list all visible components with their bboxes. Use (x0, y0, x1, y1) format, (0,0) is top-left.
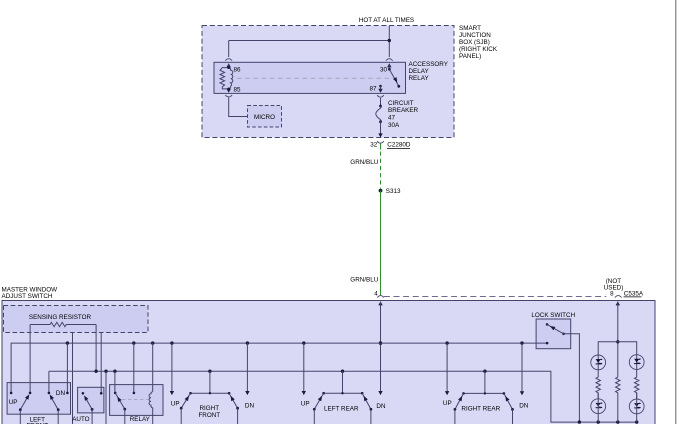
wire bus1 drop relay coil (152, 343, 154, 392)
svg-text:DN: DN (56, 390, 66, 397)
adjacent page/box edge (right, full height) (675, 0, 677, 424)
node 86 (227, 66, 230, 69)
relay blade (115, 393, 125, 409)
contact left front dn (66, 392, 69, 395)
svg-text:DN: DN (519, 402, 529, 409)
wire led bottoms (598, 393, 637, 422)
splice S313 (379, 189, 383, 193)
svg-text:ADJUST SWITCH: ADJUST SWITCH (2, 293, 53, 300)
svg-text:86: 86 (234, 67, 242, 74)
wire bus1 drop RR up (446, 343, 448, 392)
bus1 supply (11, 343, 547, 393)
connector C2280D symbol (green) (377, 141, 384, 149)
svg-text:30: 30 (380, 67, 388, 74)
svg-text:RIGHT: RIGHT (200, 405, 220, 412)
label (NOT USED) (604, 278, 624, 292)
resistor R1 (596, 377, 600, 399)
relay coil L1 (149, 392, 153, 424)
relay center contact (133, 392, 136, 395)
contact auto right (100, 392, 103, 395)
left rear switch (313, 392, 372, 424)
svg-text:ACCESSORY: ACCESSORY (409, 61, 449, 68)
node bus2 junction b (113, 370, 116, 373)
label SMART JUNCTION BOX (459, 25, 498, 60)
label CIRCUIT BREAKER 47 30A (388, 100, 419, 129)
blade auto (85, 397, 92, 409)
node bus2 junction e (483, 370, 486, 373)
node return bus junction d (635, 420, 638, 423)
contact left front mid1 (29, 392, 32, 395)
relay switch box (110, 385, 163, 416)
lock switch box (536, 319, 571, 349)
wire branch horizontal (229, 40, 390, 42)
node resistor-bus2 (94, 370, 97, 373)
wire bus1 drop RF up (171, 343, 173, 392)
relay blade pivot (397, 85, 400, 88)
svg-text:UP: UP (443, 400, 452, 407)
relay linkage (grey dashed) (122, 399, 149, 401)
wire 85 to micro (229, 98, 248, 117)
wire bus1 drop relay contact (133, 343, 135, 393)
led D4 (629, 399, 644, 414)
blade left front dn (51, 396, 59, 410)
resistor R2 (middle) (616, 377, 620, 422)
node bus1 junction b (132, 341, 135, 344)
led D3 (591, 399, 606, 414)
sensing resistor box (dashed) (4, 306, 149, 333)
wire bus2 drop LR center (342, 371, 344, 393)
svg-text:JUNCTION: JUNCTION (459, 32, 491, 39)
svg-text:AUTO: AUTO (72, 416, 89, 423)
node bus2 junction d (341, 370, 344, 373)
svg-text:GRN/BLU: GRN/BLU (350, 276, 378, 283)
node bus2 junction a (104, 370, 107, 373)
node bus1 junction e (246, 341, 249, 344)
svg-text:LOCK SWITCH: LOCK SWITCH (531, 312, 575, 319)
svg-text:GRN/BLU: GRN/BLU (350, 159, 378, 166)
master window adjust switch box (2, 301, 655, 424)
node bus2 junction c (208, 370, 211, 373)
resistor R3 (635, 377, 639, 399)
accessory delay relay box U1 (214, 62, 406, 93)
node bus1 junction f (302, 341, 305, 344)
led rail (598, 342, 637, 377)
pin 8 connector arc (615, 296, 622, 298)
node bus1 junction h (520, 341, 523, 344)
relay left contact (114, 392, 117, 395)
svg-text:FRONT: FRONT (198, 412, 220, 419)
right front switch (180, 392, 239, 424)
wire lock switch output (564, 334, 580, 422)
svg-text:30A: 30A (388, 122, 400, 129)
svg-text:C535A: C535A (624, 290, 644, 297)
pin 4 entry arrow (378, 301, 382, 305)
wire bus1 drop LR up (303, 343, 305, 392)
svg-text:RELAY: RELAY (409, 75, 430, 82)
svg-text:UP: UP (301, 401, 310, 408)
svg-text:8: 8 (610, 290, 614, 297)
svg-text:RELAY: RELAY (130, 416, 151, 423)
wire pin 4 drop (380, 302, 382, 392)
smart junction box SJB (dashed) (202, 26, 454, 138)
pin 4 connector arc (377, 296, 384, 298)
lock switch blade (547, 324, 564, 333)
mechanical linkage (grey dashed) (237, 77, 391, 79)
contact lock common (546, 323, 549, 326)
wire pin 8 drop (617, 302, 619, 378)
svg-text:UP: UP (171, 400, 180, 407)
svg-text:(RIGHT KICK: (RIGHT KICK (459, 46, 498, 53)
left front switch box (7, 383, 70, 415)
svg-text:SENSING RESISTOR: SENSING RESISTOR (29, 314, 92, 321)
wire coil feed vertical (228, 41, 230, 58)
dashed connector face line (384, 295, 606, 297)
svg-text:BREAKER: BREAKER (388, 107, 419, 114)
pin 87 wire and exit (377, 85, 384, 106)
svg-text:85: 85 (234, 86, 242, 93)
svg-text:47: 47 (388, 115, 396, 122)
node bus1 x pin4 (379, 341, 383, 345)
contact lock output (562, 333, 565, 336)
circuit breaker CB47 (376, 105, 383, 138)
relay switch blade (389, 69, 398, 86)
contact arrow LEFT REAR DN (378, 391, 382, 395)
wire sensing tap A (72, 333, 74, 424)
wire resistor left leg (29, 325, 31, 393)
svg-text:UP: UP (9, 399, 18, 406)
wire bus2 drop aux (105, 371, 107, 424)
contact lock feed (546, 342, 549, 345)
wire bus1 drop DN left front (66, 343, 68, 393)
relay coil inductor (229, 68, 233, 89)
svg-text:RIGHT REAR: RIGHT REAR (461, 406, 500, 413)
label MASTER WINDOW ADJUST SWITCH (2, 286, 58, 300)
pin 8 entry arrow (616, 301, 620, 305)
svg-text:DN: DN (245, 403, 255, 410)
node return bus junction c (616, 420, 619, 423)
label ACCESSORY DELAY RELAY (409, 61, 449, 82)
blade left front up (20, 396, 28, 410)
svg-text:S313: S313 (386, 188, 401, 195)
wire bus2 drop relay left (114, 371, 116, 393)
contact left front mid2 (48, 392, 51, 395)
node bus1 junction g (445, 341, 448, 344)
wire GRN/BLU dashed segment (380, 152, 382, 189)
wire hot feed vertical (388, 26, 390, 58)
node return bus junction a (578, 420, 581, 423)
node bus1 junction d (170, 341, 173, 344)
node bus1 junction a (66, 341, 69, 344)
svg-text:BOX (SJB): BOX (SJB) (459, 39, 490, 46)
pin 30 entry connector (386, 59, 393, 70)
node 30 (388, 68, 391, 71)
svg-text:DELAY: DELAY (409, 68, 430, 75)
wire sensing tap B (100, 333, 102, 394)
contact left front up (10, 392, 13, 395)
bus2 return (49, 371, 637, 422)
led D1 (591, 355, 606, 370)
node return bus junction b (597, 420, 600, 423)
svg-text:HOT AT ALL TIMES: HOT AT ALL TIMES (359, 17, 414, 24)
auto switch box (78, 387, 104, 413)
wire bus2 drop RF center (209, 371, 211, 393)
wire bus1 drop RF dn (246, 343, 248, 392)
pin 86 entry connector (225, 59, 232, 68)
node 85 (227, 88, 230, 91)
resistor R-sense (30, 322, 96, 326)
relay coil resistor (parallel zigzag) (220, 68, 229, 89)
node led rail junction (616, 340, 619, 343)
svg-text:CIRCUIT: CIRCUIT (388, 100, 414, 107)
wire GRN/BLU solid segment (380, 191, 382, 296)
node bus1 junction c (151, 341, 154, 344)
wire bus2 drop RR center (484, 371, 486, 393)
svg-text:PANEL): PANEL) (459, 53, 481, 60)
node feed junction (388, 39, 391, 42)
pin 85 exit connector (225, 89, 232, 97)
contact auto left (82, 392, 85, 395)
right rear switch (454, 392, 514, 424)
led D2 (629, 355, 644, 370)
micro box (dashed) (248, 106, 282, 128)
svg-text:C2280D: C2280D (387, 142, 411, 149)
svg-text:SMART: SMART (459, 25, 481, 32)
wire resistor right leg (95, 325, 97, 372)
svg-text:LEFT REAR: LEFT REAR (324, 406, 359, 413)
svg-text:87: 87 (369, 85, 377, 92)
svg-text:32: 32 (370, 142, 378, 149)
svg-text:DN: DN (376, 403, 386, 410)
svg-text:MICRO: MICRO (254, 114, 275, 121)
wire bus1 drop RR dn (521, 343, 523, 392)
